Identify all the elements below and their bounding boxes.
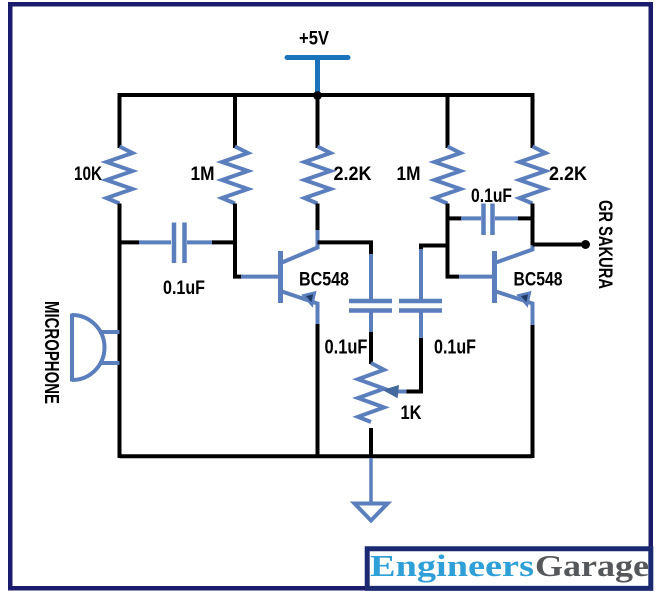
wire Q2 emitter column [531, 325, 535, 458]
svg-text:BC548: BC548 [514, 270, 563, 291]
wire microphone leads [99, 332, 120, 363]
junction dot at +5V rail [313, 91, 322, 100]
node output dot [581, 240, 590, 249]
svg-text:+5V: +5V [299, 29, 329, 50]
capacitor C1 0.1uF [139, 223, 214, 264]
wire top rail [120, 93, 533, 97]
wire Q2 collector column [531, 204, 535, 247]
svg-text:10K: 10K [74, 164, 102, 185]
wire C4 left stub [448, 216, 463, 220]
wire bottom rail [120, 454, 533, 458]
svg-text:Garage: Garage [535, 548, 649, 583]
wire left column upper [118, 93, 122, 148]
wire 2.2K column upper [316, 93, 320, 148]
svg-text:1M: 1M [191, 164, 215, 185]
wire pot bottom [369, 428, 373, 458]
resistor R1 10K [107, 147, 133, 204]
svg-text:0.1uF: 0.1uF [471, 186, 512, 207]
wire C4 right stub [518, 216, 533, 220]
svg-text:1M: 1M [397, 164, 421, 185]
microphone MIC1 [72, 314, 105, 382]
wire C2 to potentiometer [369, 332, 373, 364]
resistor R4 1M [435, 147, 461, 204]
svg-text:0.1uF: 0.1uF [163, 278, 205, 299]
wire Q1 collector column [316, 204, 320, 231]
svg-text:0.1uF: 0.1uF [325, 337, 368, 359]
wire C3 top elbow [421, 246, 448, 250]
resistor R5 2.2K [520, 147, 546, 204]
svg-text:GR SAKURA: GR SAKURA [594, 200, 615, 289]
transistor Q1 BC548 [241, 229, 318, 325]
ground [355, 458, 388, 521]
wire output to GR SAKURA [533, 243, 583, 247]
wire C1 left stub [120, 240, 140, 244]
wire Q1 collector to C2 [318, 242, 372, 255]
wire 2.2K2 column upper [531, 93, 535, 148]
capacitor C2 0.1uF [349, 254, 392, 334]
potentiometer VR1 1K [358, 363, 407, 422]
resistor R2 1M [222, 147, 248, 204]
svg-text:0.1uF: 0.1uF [434, 337, 476, 359]
svg-text:2.2K: 2.2K [334, 164, 372, 185]
svg-text:Engineers: Engineers [370, 548, 534, 583]
wire left column lower [118, 204, 122, 459]
power +5V symbol [287, 58, 348, 94]
svg-text:MICROPHONE: MICROPHONE [40, 301, 62, 404]
wire pot wiper elbow [407, 337, 422, 392]
svg-text:1K: 1K [401, 403, 422, 424]
svg-text:2.2K: 2.2K [549, 164, 587, 185]
wire 1M2 column lower to Q2 base [448, 204, 460, 277]
wire 1M2 column upper [446, 93, 450, 148]
capacitor C4 0.1uF [461, 204, 519, 236]
resistor R3 2.2K [305, 147, 331, 204]
EngineersGarage logo [367, 548, 651, 588]
capacitor C3 0.1uF [399, 249, 442, 338]
wire Q1 emitter column [316, 324, 320, 458]
transistor Q2 BC548 [459, 245, 533, 326]
wire C1 right stub [212, 240, 237, 244]
wire 1M column upper [233, 93, 237, 148]
svg-text:BC548: BC548 [299, 270, 349, 291]
wire 1M column lower to Q1 base [235, 204, 242, 277]
